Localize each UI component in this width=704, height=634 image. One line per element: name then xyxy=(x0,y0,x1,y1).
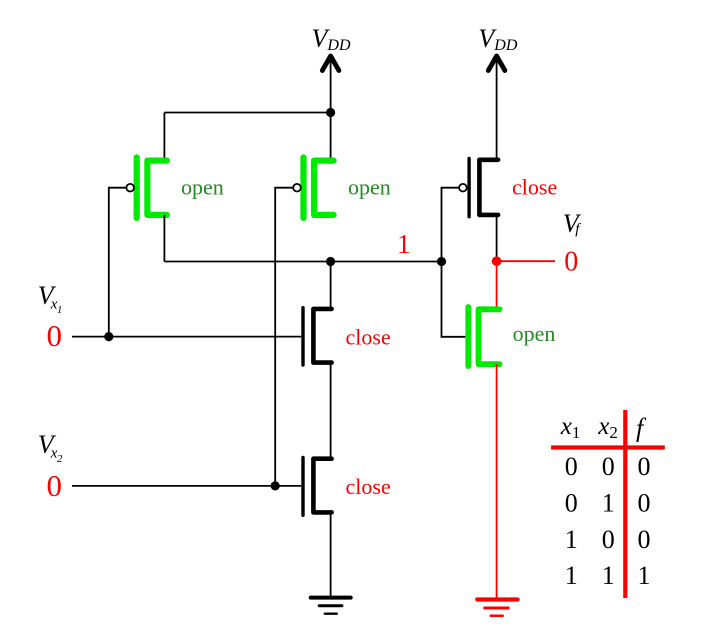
wire PMOS2 gate to Vx2 xyxy=(275,188,293,486)
wire Vx1 input xyxy=(72,336,301,338)
wire PMOS1 source down xyxy=(163,215,165,262)
svg-text:1: 1 xyxy=(638,561,651,590)
svg-text:0: 0 xyxy=(565,488,578,517)
ground black xyxy=(311,598,351,614)
svg-text:close: close xyxy=(346,474,391,499)
svg-text:1: 1 xyxy=(602,488,615,517)
svg-text:0: 0 xyxy=(638,488,651,517)
svg-text:open: open xyxy=(348,175,391,200)
wire red down to NMOS3 xyxy=(496,261,498,309)
VDD arrow right xyxy=(488,56,505,71)
svg-text:0: 0 xyxy=(638,525,651,554)
transistor NMOS2 (close) xyxy=(303,458,332,516)
transistor NMOS3 (green, open) xyxy=(468,307,499,366)
wire VDD right vertical xyxy=(496,57,498,160)
svg-text:open: open xyxy=(513,321,556,346)
svg-text:1: 1 xyxy=(565,525,578,554)
node junction VDD rail xyxy=(326,108,335,117)
svg-text:1: 1 xyxy=(397,229,411,259)
ground red xyxy=(477,600,517,616)
wire output node horizontal xyxy=(164,261,441,263)
wire down to PMOS1 drain xyxy=(163,113,165,161)
wire PMOS3 source down xyxy=(496,215,498,261)
wire inverter gate vertical xyxy=(442,188,466,337)
svg-text:close: close xyxy=(512,174,557,199)
svg-text:1: 1 xyxy=(565,561,578,590)
node junction inverter input xyxy=(437,257,446,266)
wire NMOS1 source to NMOS2 drain xyxy=(330,363,332,459)
svg-text:0: 0 xyxy=(47,318,63,353)
svg-text:0: 0 xyxy=(638,452,651,481)
node Vf red dot xyxy=(492,256,502,266)
node junction PMOS2 source xyxy=(326,257,335,266)
transistor PMOS1 (green, open) xyxy=(137,158,167,218)
truth table row 3 xyxy=(565,525,651,554)
VDD label left xyxy=(312,24,351,54)
VDD arrow left xyxy=(322,56,339,71)
wire red NMOS3 source down xyxy=(496,364,498,599)
svg-text:0: 0 xyxy=(565,452,578,481)
gate bubble PMOS2 xyxy=(293,184,301,192)
truth table row 4 xyxy=(565,561,651,590)
svg-text:0: 0 xyxy=(602,525,615,554)
node junction Vx2 xyxy=(271,481,280,490)
wire NMOS2 source down xyxy=(330,512,332,597)
truth table vertical rule xyxy=(623,410,627,598)
wire VDD left vertical xyxy=(330,57,332,161)
svg-text:1: 1 xyxy=(602,561,615,590)
wire top rail horizontal xyxy=(164,112,330,114)
svg-text:close: close xyxy=(346,325,391,350)
transistor PMOS2 (green, open) xyxy=(304,158,334,218)
transistor NMOS1 (close) xyxy=(303,308,332,365)
svg-text:0: 0 xyxy=(564,247,578,278)
wire Vx2 input xyxy=(72,485,301,487)
gate bubble PMOS1 xyxy=(126,184,134,192)
gate bubble PMOS3 xyxy=(459,184,467,192)
wire PMOS1 gate to Vx1 xyxy=(109,188,127,337)
wire Vf output red xyxy=(497,260,555,262)
svg-text:0: 0 xyxy=(47,468,63,503)
transistor PMOS3 (black, close) xyxy=(469,159,498,217)
truth table horizontal rule xyxy=(551,445,665,449)
node junction Vx1 xyxy=(104,332,113,341)
svg-text:open: open xyxy=(181,175,224,200)
wire NMOS1 drain xyxy=(330,262,332,309)
truth table row 1 xyxy=(565,452,651,481)
svg-text:0: 0 xyxy=(602,452,615,481)
truth table row 2 xyxy=(565,488,651,517)
